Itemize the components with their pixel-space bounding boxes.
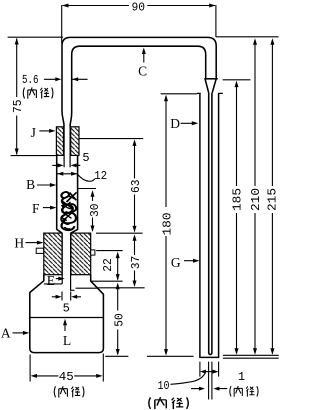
- dim 180 line: [165, 96, 167, 354]
- dim 22 ext top: [96, 250, 122, 252]
- G tube walls: [200, 93, 219, 357]
- svg-text:C: C: [138, 64, 147, 79]
- svg-text:5: 5: [82, 151, 89, 165]
- svg-text:22: 22: [101, 258, 115, 272]
- 180 up / down: [164, 95, 168, 102]
- dim 45 ext lines: [30, 354, 103, 382]
- dim 12 line: [57, 173, 77, 175]
- 210 up / down: [253, 38, 257, 45]
- dim 50 line: [117, 285, 119, 355]
- svg-text:30: 30: [88, 203, 102, 217]
- J arrow stem: [39, 130, 50, 132]
- dim 180 ext: [161, 93, 197, 95]
- arrowheads: [15, 4, 275, 391]
- part labels: [1, 64, 181, 349]
- dim 63 ext top: [79, 138, 143, 140]
- top extension line left: [8, 36, 63, 38]
- J bottom extension left: [11, 155, 57, 157]
- G arrow stem: [184, 260, 197, 262]
- dim 30 line: [92, 192, 94, 231]
- 1 arrows inward: [199, 387, 205, 391]
- right rim line: [76, 287, 98, 289]
- left rim line: [44, 283, 62, 285]
- H arrow stem: [26, 242, 41, 244]
- riser taper into J block: [62, 111, 72, 127]
- dim 10 leader: [171, 372, 206, 384]
- 22 up / down: [116, 252, 120, 259]
- joint step line: [204, 78, 218, 80]
- G tube bottom: [199, 356, 219, 358]
- svg-text:L: L: [63, 333, 71, 348]
- 12 arrows outward: [57, 172, 63, 176]
- baseline double line right: [223, 355, 279, 358]
- rim extension line: [98, 287, 145, 289]
- 215 up / down: [270, 38, 274, 45]
- 45 left / right: [31, 374, 38, 378]
- 75 up / down: [15, 38, 19, 45]
- dim 5 tip ext: [62, 292, 71, 301]
- dim 75 line: [16, 39, 18, 155]
- dim 10 ext: [200, 362, 219, 377]
- H block hatched stopper: [36, 233, 95, 275]
- (内径) under 5.6: [23, 87, 53, 98]
- svg-text:10: 10: [158, 379, 170, 393]
- funnel taper to capillary: [205, 80, 216, 93]
- right ear: [91, 250, 95, 255]
- 63 up / down: [133, 139, 137, 146]
- (内径) under 45: [54, 386, 84, 397]
- (内径) under 10: [149, 397, 189, 409]
- dim 215 line: [271, 40, 273, 354]
- A right: [23, 331, 30, 335]
- vessel A: [30, 275, 104, 353]
- svg-text:D: D: [170, 116, 180, 131]
- svg-text:45: 45: [59, 370, 74, 384]
- 30 up / down: [91, 190, 95, 197]
- C arrow stem: [143, 51, 145, 63]
- svg-text:50: 50: [113, 313, 127, 327]
- svg-text:F: F: [32, 201, 40, 216]
- E arrow stem: [56, 278, 60, 280]
- B arrow stem: [37, 184, 54, 186]
- dim 30 ext: [78, 188, 96, 190]
- dim 185 line: [236, 82, 238, 354]
- 185 up / down: [235, 81, 239, 88]
- capillary tube with U bottom: [209, 93, 212, 355]
- kanji 内径 labels drawn as strokes: [23, 87, 258, 409]
- dim 12 leader: [77, 174, 95, 181]
- svg-text:5: 5: [63, 302, 70, 316]
- svg-text:63: 63: [129, 179, 143, 193]
- capillary ext lines: [209, 362, 212, 400]
- svg-text:180: 180: [161, 213, 175, 236]
- svg-text:185: 185: [230, 188, 244, 211]
- dim 5.6 arrows stems: [44, 78, 88, 80]
- dim 10 line: [205, 371, 215, 373]
- (内径) right of 1: [230, 386, 258, 397]
- 5 tip arrows: [56, 295, 62, 299]
- liquid level line: [30, 317, 102, 319]
- dim 90 ext lines: [62, 5, 216, 44]
- left ear: [36, 248, 43, 253]
- svg-text:A: A: [1, 325, 11, 340]
- dim 22 line: [117, 254, 119, 280]
- svg-text:5.6: 5.6: [22, 73, 39, 87]
- dim 5 nozzle stems: [52, 164, 80, 166]
- dim 63 line: [134, 141, 136, 232]
- svg-text:H: H: [14, 235, 24, 250]
- G tube rims: [197, 92, 223, 94]
- svg-text:1: 1: [238, 370, 245, 384]
- 90 left / right: [62, 4, 69, 8]
- dim 1 stems: [191, 388, 227, 390]
- dim 210 line: [254, 40, 256, 354]
- top extension line right: [216, 36, 279, 38]
- F sample squiggle (twisted wire sample): [61, 192, 77, 230]
- dim 45 line: [36, 375, 97, 377]
- ext line 22 bottom / 50 top: [91, 280, 123, 282]
- F arrow stem: [43, 207, 54, 209]
- dim 185 ext: [223, 79, 251, 81]
- J block hatched stopper: [56, 127, 79, 156]
- svg-text:E: E: [47, 273, 55, 288]
- dim 5 tip stems: [52, 296, 81, 298]
- 37 up / down: [133, 234, 137, 241]
- dim 90 line: [63, 5, 215, 7]
- tube inner wall: [72, 46, 206, 112]
- L arrow stem: [64, 321, 66, 331]
- svg-text:210: 210: [249, 188, 263, 211]
- svg-text:B: B: [26, 177, 35, 192]
- svg-text:12: 12: [94, 169, 107, 183]
- B tube tip through H block into vessel: [62, 233, 74, 290]
- 50 up / down: [116, 283, 120, 290]
- 5 nozzle arrows: [58, 163, 64, 167]
- A arrow stem: [13, 332, 27, 334]
- B tube (sample tube): [57, 155, 78, 233]
- ext line at H top level: [96, 232, 143, 234]
- svg-text:37: 37: [129, 256, 143, 270]
- 10 arrows outward: [200, 370, 206, 374]
- svg-text:215: 215: [266, 188, 279, 211]
- tube outer wall: left riser up, across top, down right: [62, 37, 216, 110]
- L up: [63, 319, 67, 326]
- svg-text:75: 75: [11, 99, 25, 113]
- baseline segments: [105, 355, 193, 357]
- svg-text:90: 90: [132, 1, 146, 15]
- nozzle walls through J block: [64, 127, 70, 168]
- D arrow stem: [181, 122, 195, 124]
- dim 37 line: [134, 236, 136, 286]
- svg-text:J: J: [31, 125, 36, 140]
- 5.6 arrows point inward to walls: [55, 77, 61, 81]
- svg-text:G: G: [171, 255, 181, 270]
- label arrows J B F H E C D G: [49, 129, 56, 133]
